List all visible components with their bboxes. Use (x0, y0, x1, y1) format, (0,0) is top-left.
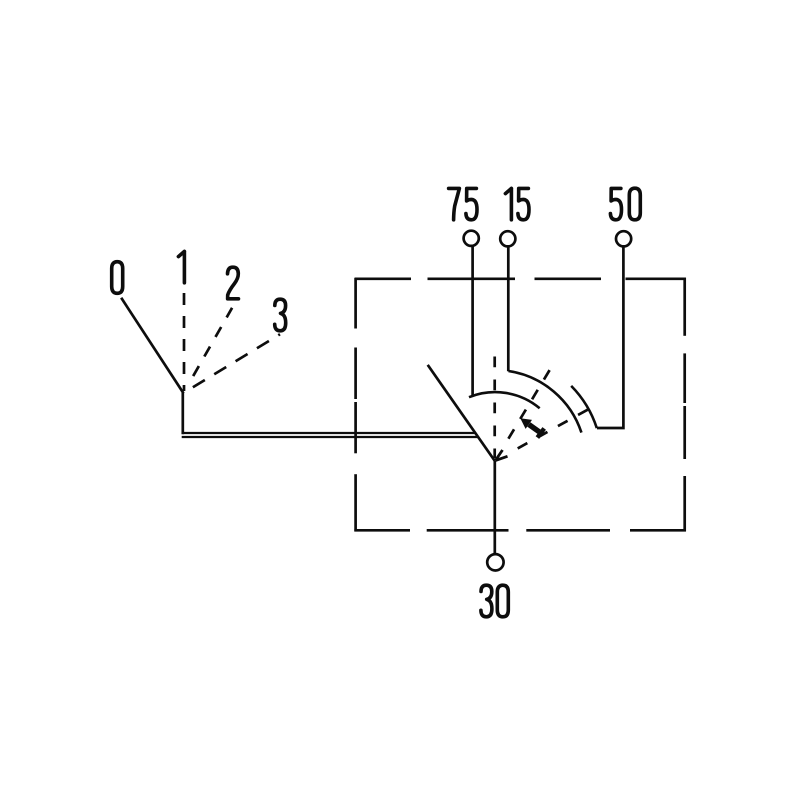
terminal 15 (500, 231, 515, 246)
key position 2 dashed line (193, 308, 232, 376)
switch housing dashed enclosure: top edge (355, 277, 686, 280)
label 0 (112, 262, 123, 294)
rotor position dashed line 2 (57 deg) (508, 368, 551, 439)
wire terminal 50 to contact arc (597, 247, 623, 428)
wire terminal 15 to contact arc (507, 247, 510, 372)
wire terminal 75 to contact arc (471, 246, 474, 396)
switch housing dashed enclosure: left edge (354, 278, 357, 532)
contact arc 75 (469, 392, 540, 408)
key position 0 solid line (121, 298, 183, 393)
terminal 30 (487, 554, 503, 570)
arrowhead barbs at rotor center (495, 450, 507, 461)
terminal 50 (616, 231, 631, 246)
rotor position dashed line 3 (28 deg) (518, 408, 591, 448)
label 3 (275, 299, 286, 331)
pivot stem wire (181, 393, 184, 435)
switch housing dashed enclosure: bottom edge (354, 529, 686, 532)
terminal 75 (464, 231, 479, 246)
spring-return bold arrow (momentary start position) (520, 418, 544, 437)
key position 1 dashed line (183, 293, 186, 391)
label 15 (505, 188, 529, 219)
rotor position dashed line 1 (vertical) (493, 357, 496, 459)
label 75 (449, 188, 477, 219)
rotor wiper lever (position 0) (428, 365, 495, 461)
wire terminal 30 to rotor center (493, 461, 496, 554)
label 1 (178, 251, 184, 282)
switch housing dashed enclosure: right edge (683, 278, 686, 532)
key position 3 dashed line (193, 334, 280, 387)
label 50 (610, 188, 640, 220)
contact arc 50 (571, 386, 597, 428)
label 2 (228, 267, 239, 299)
actuating rod double line (182, 433, 478, 437)
contact arc 15 (508, 371, 581, 433)
label 30 (481, 585, 508, 617)
